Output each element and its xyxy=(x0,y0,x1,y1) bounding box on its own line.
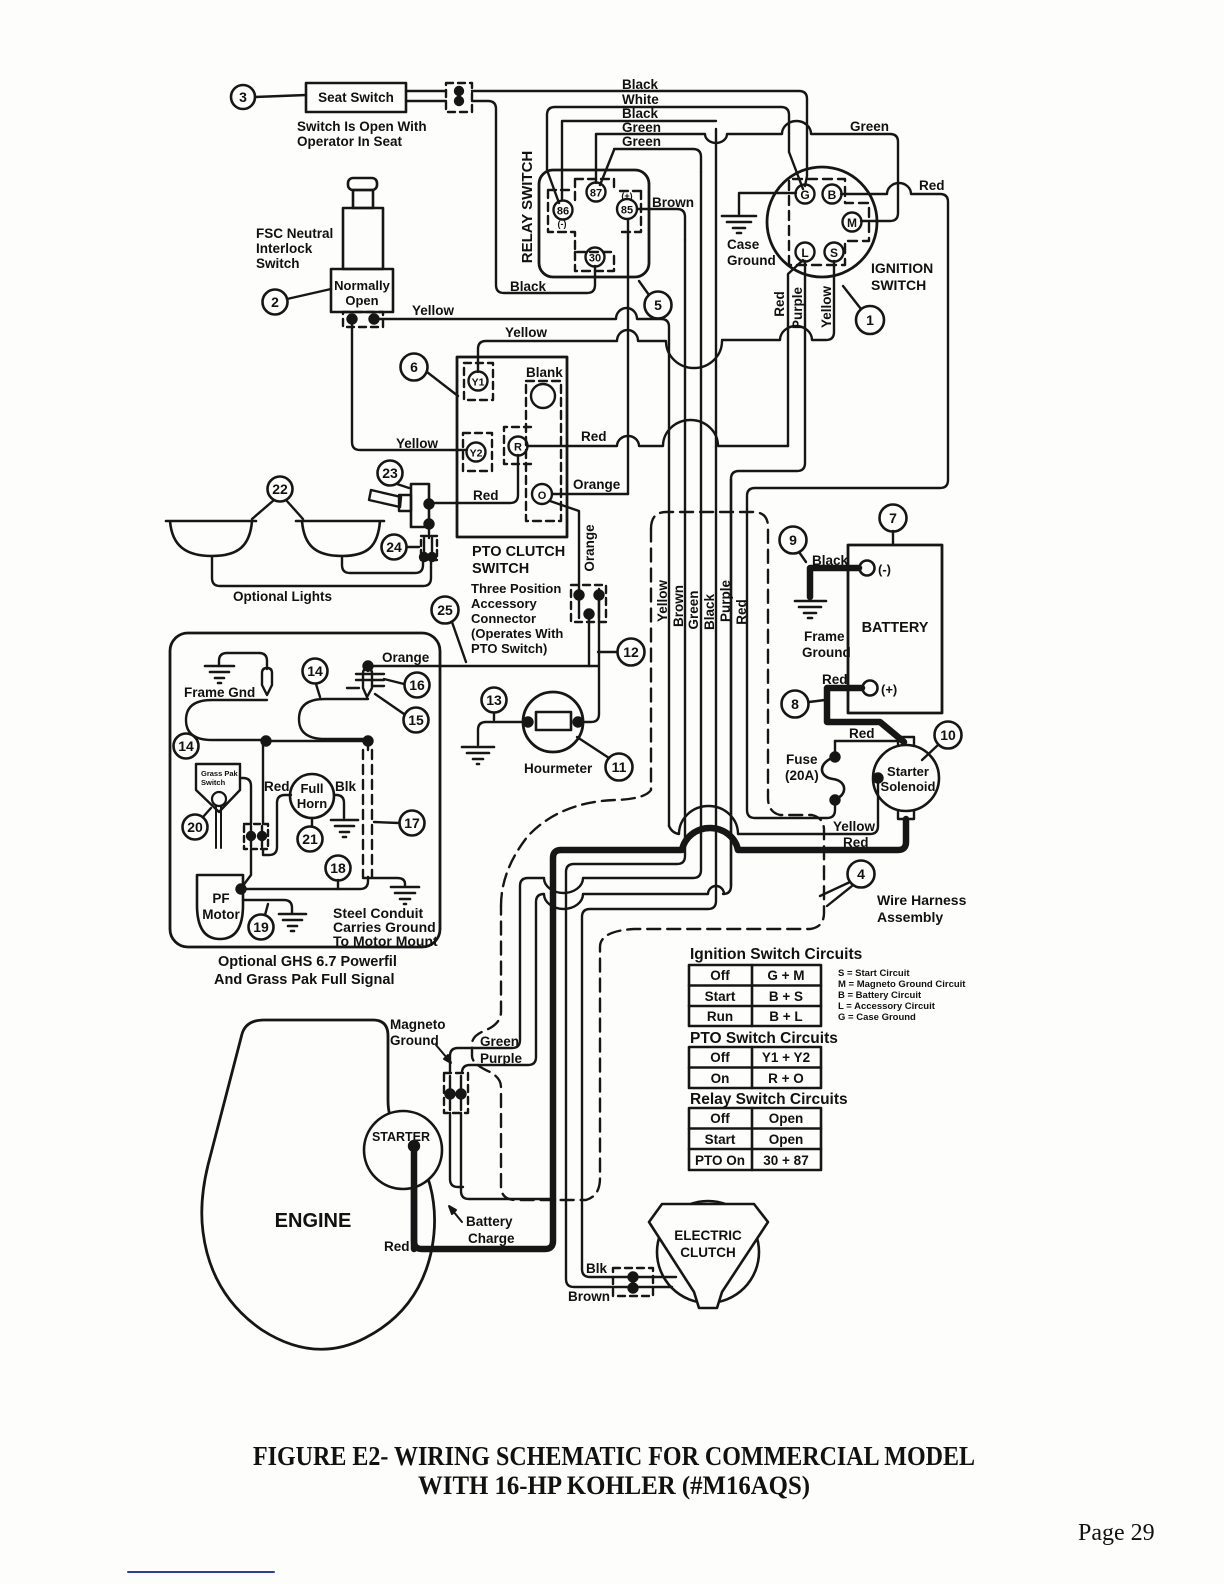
svg-text:Horn: Horn xyxy=(297,796,327,811)
node 11 callout xyxy=(577,737,633,781)
svg-text:Red: Red xyxy=(919,178,945,193)
connector J20 xyxy=(244,824,268,849)
svg-text:Off: Off xyxy=(710,1111,730,1126)
svg-text:Red: Red xyxy=(772,291,787,317)
relay polarity marks xyxy=(558,191,633,229)
relay terminal 87 xyxy=(587,183,606,202)
svg-text:(+): (+) xyxy=(621,191,632,201)
svg-text:G + M: G + M xyxy=(767,968,804,983)
svg-text:Yellow: Yellow xyxy=(412,303,455,318)
svg-text:Orange: Orange xyxy=(582,524,597,572)
wire yellow FSC-to-Y2 xyxy=(352,319,467,450)
wire junction bus xyxy=(266,740,368,742)
relay terminal 85 xyxy=(617,199,637,219)
FSC switch label xyxy=(256,226,333,271)
svg-text:Black: Black xyxy=(510,279,547,294)
junction dot left xyxy=(262,737,271,746)
motor junction dot xyxy=(237,885,246,894)
svg-text:Motor: Motor xyxy=(202,907,240,922)
ignition terminal S xyxy=(825,243,844,262)
svg-text:Starter: Starter xyxy=(887,764,929,779)
svg-text:B: B xyxy=(828,188,837,202)
svg-text:Ignition Switch Circuits: Ignition Switch Circuits xyxy=(690,946,862,963)
ignition terminal L xyxy=(796,243,815,262)
svg-text:(-): (-) xyxy=(558,219,567,229)
svg-text:14: 14 xyxy=(178,738,194,754)
svg-text:Battery: Battery xyxy=(466,1214,513,1229)
svg-text:7: 7 xyxy=(889,510,897,526)
svg-text:Grass Pak: Grass Pak xyxy=(201,769,239,778)
svg-text:21: 21 xyxy=(302,831,318,847)
svg-text:S: S xyxy=(830,246,838,260)
wire black seat-to-ignition-G xyxy=(406,91,807,186)
svg-text:Switch: Switch xyxy=(201,778,226,787)
node 17 callout xyxy=(374,811,425,836)
PTO clutch switch box xyxy=(457,357,567,537)
svg-text:R + O: R + O xyxy=(768,1071,804,1086)
frame gnd bullet terminal xyxy=(262,668,272,695)
node 18 callout xyxy=(326,856,351,890)
node 19 callout xyxy=(249,904,274,940)
svg-text:SWITCH: SWITCH xyxy=(871,277,926,293)
wire red R-to-toggle xyxy=(429,455,518,503)
node 8 callout xyxy=(782,691,826,718)
junction dot right xyxy=(364,737,373,746)
node 15 callout xyxy=(375,694,429,733)
node 14 callout upper xyxy=(303,659,328,698)
svg-text:Brown: Brown xyxy=(652,195,694,210)
svg-text:ENGINE: ENGINE xyxy=(275,1210,352,1232)
node 1 callout xyxy=(843,286,884,334)
svg-text:CLUTCH: CLUTCH xyxy=(680,1245,736,1260)
optional light left xyxy=(166,521,256,556)
svg-text:Red: Red xyxy=(473,488,499,503)
wire toggle-to-connector24 xyxy=(428,526,430,538)
PTO dashed outline blank-O xyxy=(526,381,561,521)
engine body xyxy=(202,1020,435,1349)
svg-text:18: 18 xyxy=(330,860,346,876)
svg-text:8: 8 xyxy=(791,696,799,712)
footer rule xyxy=(128,1571,274,1573)
wire red starter stub xyxy=(411,1146,418,1249)
svg-text:5: 5 xyxy=(654,297,662,313)
svg-text:1: 1 xyxy=(866,312,874,328)
optional light right xyxy=(296,521,384,556)
svg-text:Start: Start xyxy=(705,1132,736,1147)
PTO terminal R xyxy=(504,427,531,464)
svg-text:L: L xyxy=(801,246,808,260)
svg-text:(Operates With: (Operates With xyxy=(471,626,563,641)
PTO terminal O xyxy=(532,484,552,504)
conduit ground symbol xyxy=(391,887,419,904)
svg-text:Green: Green xyxy=(850,119,889,134)
svg-text:6: 6 xyxy=(410,359,418,375)
svg-text:Charge: Charge xyxy=(468,1231,515,1246)
wire orange O-to-accessory-connector xyxy=(550,501,579,589)
node 10 callout xyxy=(922,722,962,761)
hourmeter ground symbol xyxy=(462,747,494,764)
svg-text:White: White xyxy=(622,92,659,107)
svg-text:Full: Full xyxy=(300,781,323,796)
circuit legend xyxy=(838,968,966,1023)
svg-text:Yellow: Yellow xyxy=(505,325,548,340)
ignition circuits table xyxy=(689,965,821,1026)
wire black battery-to-frame-ground xyxy=(810,568,859,597)
relay circuits table xyxy=(689,1108,821,1170)
svg-text:FSC Neutral: FSC Neutral xyxy=(256,226,333,241)
wire connector-to-hourmeter xyxy=(582,600,599,722)
accessory connector J25 xyxy=(571,585,606,622)
ignition terminal M xyxy=(843,213,862,232)
svg-text:3: 3 xyxy=(239,89,247,105)
electric clutch body xyxy=(649,1201,768,1308)
wire green2 relay87-to-bundle xyxy=(600,149,701,185)
svg-text:Red: Red xyxy=(822,672,848,687)
case ground label xyxy=(727,237,776,268)
svg-text:10: 10 xyxy=(940,727,956,743)
frame gnd symbol xyxy=(205,666,234,683)
svg-text:Orange: Orange xyxy=(382,650,430,665)
svg-text:PTO Switch): PTO Switch) xyxy=(471,641,547,656)
svg-text:Open: Open xyxy=(345,293,378,308)
svg-text:ELECTRIC: ELECTRIC xyxy=(674,1228,742,1243)
svg-text:Black: Black xyxy=(812,553,849,568)
FSC switch lower body xyxy=(331,269,393,312)
wire lights left loop xyxy=(212,556,431,586)
magneto ground label xyxy=(390,1017,446,1048)
svg-text:Off: Off xyxy=(710,968,730,983)
svg-text:15: 15 xyxy=(408,712,424,728)
node 23 callout xyxy=(378,461,410,489)
case ground symbol xyxy=(722,216,756,233)
svg-text:24: 24 xyxy=(386,539,402,555)
svg-text:Ground: Ground xyxy=(727,253,776,268)
PTO circuits table text xyxy=(710,1050,810,1086)
svg-text:20: 20 xyxy=(187,819,203,835)
svg-text:Purple: Purple xyxy=(480,1051,523,1066)
case ground wire xyxy=(739,193,796,214)
svg-text:11: 11 xyxy=(612,759,627,775)
svg-text:On: On xyxy=(711,1071,730,1086)
starter xyxy=(364,1111,442,1189)
svg-text:Red: Red xyxy=(581,429,607,444)
harness dashed boundary right xyxy=(472,512,824,1200)
svg-text:86: 86 xyxy=(557,206,569,218)
horn ground symbol xyxy=(331,820,358,837)
svg-text:BATTERY: BATTERY xyxy=(862,620,929,636)
toggle switch SW23 xyxy=(369,484,434,529)
GHS caption xyxy=(214,954,397,988)
svg-text:Red: Red xyxy=(384,1239,410,1254)
node 25 callout xyxy=(432,597,467,663)
svg-text:Frame Gnd: Frame Gnd xyxy=(184,685,255,700)
frame ground symbol battery xyxy=(795,601,826,618)
svg-text:Black: Black xyxy=(702,593,717,630)
svg-text:Black: Black xyxy=(622,106,659,121)
svg-text:Optional Lights: Optional Lights xyxy=(233,589,332,604)
svg-text:S = Start Circuit: S = Start Circuit xyxy=(838,968,910,979)
node 20 callout xyxy=(183,808,212,840)
fuel sender component xyxy=(347,662,384,698)
svg-text:(+): (+) xyxy=(881,682,897,697)
wire bundle brown xyxy=(566,240,685,1287)
full horn xyxy=(290,774,334,818)
svg-text:30: 30 xyxy=(589,253,601,265)
FSC switch upper body xyxy=(343,208,383,269)
svg-text:Brown: Brown xyxy=(671,585,686,627)
svg-text:STARTER: STARTER xyxy=(372,1130,430,1144)
svg-text:Assembly: Assembly xyxy=(877,909,943,925)
FSC switch plunger cap xyxy=(348,178,377,190)
svg-text:Normally: Normally xyxy=(334,278,390,293)
battery negative terminal xyxy=(860,561,892,578)
svg-text:Purple: Purple xyxy=(790,287,805,330)
wire lights right loop xyxy=(342,556,423,573)
svg-text:85: 85 xyxy=(621,205,633,217)
battery box xyxy=(848,545,942,713)
wire relay85-down-to-orange xyxy=(627,219,629,494)
wire yellow FSC-to-bundle with hop xyxy=(374,308,669,826)
svg-text:Green: Green xyxy=(622,134,661,149)
svg-text:19: 19 xyxy=(253,919,269,935)
svg-text:Blank: Blank xyxy=(526,365,563,380)
node 22 callout xyxy=(252,477,303,520)
battery positive terminal xyxy=(863,681,898,698)
conduit ground wire xyxy=(363,878,405,886)
svg-text:Start: Start xyxy=(705,989,736,1004)
svg-text:Orange: Orange xyxy=(573,477,621,492)
svg-text:Off: Off xyxy=(710,1050,730,1065)
svg-text:Green: Green xyxy=(686,590,701,629)
svg-text:30 + 87: 30 + 87 xyxy=(763,1153,808,1168)
wire fuse-to-solenoid-top xyxy=(835,740,897,742)
wire red ignitionL-to-PTO-R xyxy=(788,260,803,446)
svg-text:Red: Red xyxy=(843,835,869,850)
svg-text:2: 2 xyxy=(271,294,279,310)
svg-text:B + L: B + L xyxy=(769,1009,802,1024)
svg-text:Magneto: Magneto xyxy=(390,1017,446,1032)
svg-text:9: 9 xyxy=(789,532,797,548)
svg-text:Optional GHS 6.7 Powerfil: Optional GHS 6.7 Powerfil xyxy=(218,954,397,970)
svg-text:Case: Case xyxy=(727,237,760,252)
wire motor-to-ground xyxy=(243,900,292,913)
svg-text:Y1 + Y2: Y1 + Y2 xyxy=(762,1050,810,1065)
PTO circuits table xyxy=(689,1047,821,1088)
harness dashed boundary left curve xyxy=(501,529,651,906)
relay dashed terminal outline xyxy=(548,179,641,271)
wire red connector-to-horn xyxy=(263,795,291,855)
svg-text:Y2: Y2 xyxy=(470,448,483,460)
svg-text:G = Case Ground: G = Case Ground xyxy=(838,1012,916,1023)
svg-text:Three Position: Three Position xyxy=(471,581,561,596)
PF motor xyxy=(197,875,243,939)
svg-text:Hourmeter: Hourmeter xyxy=(524,761,593,776)
svg-text:Blk: Blk xyxy=(335,779,357,794)
wire orange O-to-85wire xyxy=(552,493,628,495)
svg-text:Operator In Seat: Operator In Seat xyxy=(297,134,403,149)
svg-text:Switch: Switch xyxy=(256,256,300,271)
svg-text:Yellow: Yellow xyxy=(833,819,876,834)
connector J24 xyxy=(420,536,437,561)
svg-text:Yellow: Yellow xyxy=(396,436,439,451)
seat switch note xyxy=(297,119,427,149)
connector J3 (seat switch) xyxy=(446,83,472,112)
svg-text:Open: Open xyxy=(769,1111,804,1126)
svg-text:O: O xyxy=(538,490,547,502)
wire motor-to-conduit xyxy=(241,877,368,889)
battery charge label xyxy=(466,1214,515,1246)
ignition switch label xyxy=(871,260,933,293)
wire bundle purple xyxy=(462,479,731,1073)
svg-text:PF: PF xyxy=(212,891,229,906)
svg-text:Fuse: Fuse xyxy=(786,752,818,767)
svg-text:Red: Red xyxy=(264,779,290,794)
wire red ignitionB-to-battery-feed xyxy=(747,183,948,818)
node 21 callout xyxy=(298,818,323,852)
node 6 callout xyxy=(401,354,459,397)
wire loop 14 right xyxy=(299,699,368,739)
svg-text:13: 13 xyxy=(486,692,502,708)
svg-text:And Grass Pak Full Signal: And Grass Pak Full Signal xyxy=(214,972,395,988)
svg-text:Run: Run xyxy=(707,1009,733,1024)
wire grasspak-to-connector xyxy=(240,778,251,824)
svg-text:87: 87 xyxy=(590,188,602,200)
wire magneto-to-starter left xyxy=(450,1113,463,1187)
wire bus-to-connector xyxy=(262,741,264,824)
wire magneto-to-starter right (battery charge) xyxy=(461,1113,553,1199)
node 16 callout xyxy=(384,673,430,698)
svg-text:Solenoid: Solenoid xyxy=(881,779,936,794)
svg-text:WITH 16-HP KOHLER (#M16AQS): WITH 16-HP KOHLER (#M16AQS) xyxy=(418,1471,810,1500)
svg-text:Brown: Brown xyxy=(568,1289,610,1304)
svg-text:FIGURE E2- WIRING SCHEMATIC FO: FIGURE E2- WIRING SCHEMATIC FOR COMMERCI… xyxy=(253,1440,975,1471)
wire bundle green xyxy=(450,172,701,1073)
wire red R-to-ignitionL with hops xyxy=(527,420,788,446)
ignition terminal B xyxy=(823,185,842,204)
fuse 20A xyxy=(822,741,844,805)
wire brown relay85-to-bundle xyxy=(637,209,685,240)
wire orange sender-to-connector xyxy=(368,665,589,667)
svg-text:25: 25 xyxy=(437,602,453,618)
hourmeter body xyxy=(523,692,583,752)
node 24 callout xyxy=(382,535,420,560)
svg-text:Green: Green xyxy=(480,1034,519,1049)
svg-text:Y1: Y1 xyxy=(472,377,485,389)
node 3 callout xyxy=(231,85,306,109)
svg-text:RELAY SWITCH: RELAY SWITCH xyxy=(519,151,536,264)
frame gnd wire xyxy=(219,653,267,669)
wire blk horn-to-ground xyxy=(334,795,344,818)
svg-text:17: 17 xyxy=(404,815,420,831)
wire yellow ignitionS-to-Y1 with hops xyxy=(478,261,834,372)
svg-text:G: G xyxy=(800,188,809,202)
grass pak switch xyxy=(196,764,240,848)
frame ground label xyxy=(802,629,851,660)
wire yellow solenoid-to-FSC xyxy=(669,783,878,834)
ignition terminal G xyxy=(796,185,815,204)
svg-text:Green: Green xyxy=(622,120,661,135)
svg-text:SWITCH: SWITCH xyxy=(472,561,529,577)
svg-text:23: 23 xyxy=(382,465,398,481)
ignition circuits table text xyxy=(705,968,805,1024)
svg-text:Black: Black xyxy=(622,77,659,92)
ignition dashed terminal outline xyxy=(789,179,869,265)
wire connector-to-motor xyxy=(242,849,251,887)
svg-text:Accessory: Accessory xyxy=(471,596,538,611)
svg-text:L = Accessory Circuit: L = Accessory Circuit xyxy=(838,1001,936,1012)
FSC connector pins xyxy=(343,312,383,327)
battery charge arrow xyxy=(449,1206,462,1222)
svg-text:Purple: Purple xyxy=(718,580,733,623)
svg-text:M = Magneto Ground Circuit: M = Magneto Ground Circuit xyxy=(838,979,966,990)
wire purple ignitionL-to-bundle xyxy=(731,261,805,886)
svg-text:Ground: Ground xyxy=(390,1033,439,1048)
svg-text:Switch Is Open With: Switch Is Open With xyxy=(297,119,427,134)
svg-text:IGNITION: IGNITION xyxy=(871,260,933,276)
PTO blank terminal xyxy=(526,365,563,408)
wire loop 14 left xyxy=(186,700,267,740)
svg-text:To Motor Mount: To Motor Mount xyxy=(333,933,438,949)
node 5 callout xyxy=(639,281,672,319)
node 9 callout xyxy=(780,527,807,563)
PTO clutch switch label xyxy=(472,544,565,577)
motor ground symbol xyxy=(279,914,306,931)
relay switch box xyxy=(539,170,649,277)
wire black2 relay86-to-bundle xyxy=(562,121,716,199)
svg-text:Yellow: Yellow xyxy=(819,286,834,329)
svg-text:(20A): (20A) xyxy=(785,768,819,783)
svg-text:Red: Red xyxy=(734,599,749,625)
node 12 callout xyxy=(598,639,645,666)
magneto connector J2 xyxy=(444,1073,468,1113)
svg-text:M: M xyxy=(847,216,857,230)
three position connector note xyxy=(471,581,563,656)
svg-text:Frame: Frame xyxy=(804,629,845,644)
ignition switch body xyxy=(767,167,877,277)
svg-text:B + S: B + S xyxy=(769,989,803,1004)
wire orange connector-to-junction xyxy=(589,614,598,666)
magneto ground arrow xyxy=(436,1045,451,1063)
node 7 callout xyxy=(880,505,907,546)
fuse label xyxy=(785,752,819,783)
svg-text:Interlock: Interlock xyxy=(256,241,313,256)
wire bundle black xyxy=(582,129,716,1277)
svg-text:Open: Open xyxy=(769,1132,804,1147)
wire red solenoid-to-starter thick xyxy=(414,819,906,1249)
svg-text:12: 12 xyxy=(623,644,639,660)
svg-text:16: 16 xyxy=(409,677,425,693)
svg-text:Yellow: Yellow xyxy=(655,580,670,623)
steel conduit xyxy=(363,741,372,877)
svg-text:Seat Switch: Seat Switch xyxy=(318,90,394,105)
node 13 callout xyxy=(482,688,507,721)
wire white relay86-to-G xyxy=(547,107,803,203)
relay terminal 86 xyxy=(554,201,573,220)
svg-text:14: 14 xyxy=(307,663,323,679)
wire harness assembly label xyxy=(877,892,967,925)
clutch connector J1 xyxy=(613,1268,653,1296)
PTO terminal Y1 xyxy=(464,363,493,400)
svg-text:PTO Switch Circuits: PTO Switch Circuits xyxy=(690,1030,838,1047)
wire black seat-to-relay-30 xyxy=(406,101,595,293)
node 4 callout xyxy=(820,861,875,907)
PTO terminal Y2 xyxy=(463,433,492,471)
GHS powerfil box xyxy=(170,633,440,947)
svg-text:22: 22 xyxy=(272,481,288,497)
node 2 callout xyxy=(263,289,332,315)
wire green1 relay87-to-M with hops xyxy=(596,121,898,221)
starter solenoid xyxy=(873,737,939,819)
